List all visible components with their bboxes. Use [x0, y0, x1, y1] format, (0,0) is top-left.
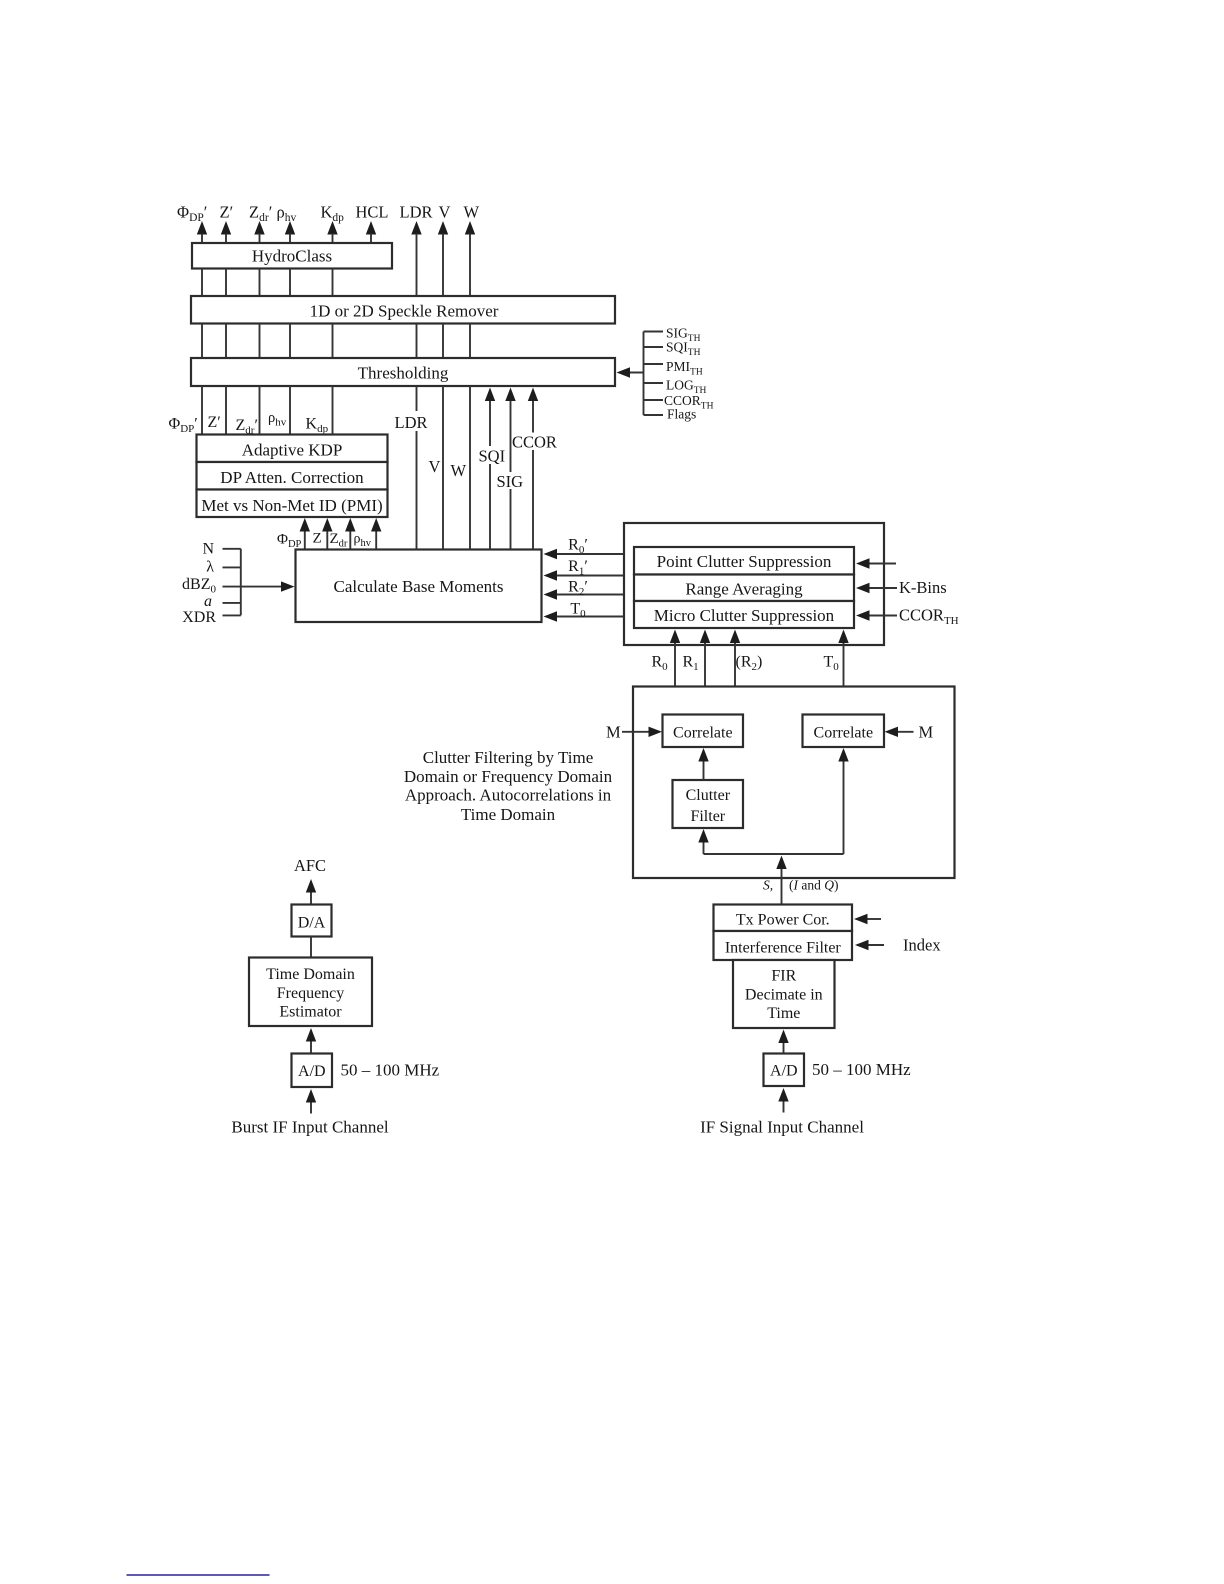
svg-text:D/A: D/A	[298, 915, 326, 932]
label PhiDP' mid	[168, 412, 201, 435]
svg-text:Micro Clutter Suppression: Micro Clutter Suppression	[654, 606, 835, 625]
svg-text:(I and Q): (I and Q)	[789, 878, 839, 893]
footnote rule	[127, 1574, 270, 1576]
box Adaptive KDP	[197, 435, 388, 463]
top output arrowheads	[197, 221, 475, 235]
svg-text:Correlate: Correlate	[814, 725, 874, 742]
arrow A/D to FIR	[778, 1030, 788, 1054]
svg-text:a: a	[204, 593, 212, 610]
svg-text:R0: R0	[652, 654, 669, 674]
box 1D or 2D Speckle Remover	[191, 296, 615, 324]
svg-text:M: M	[919, 723, 934, 742]
box clutter filtering group	[633, 687, 955, 879]
box FIR Decimate in Time	[733, 960, 835, 1028]
svg-text:ρhv: ρhv	[354, 532, 372, 550]
box D/A	[292, 905, 332, 937]
svg-text:Time Domain: Time Domain	[461, 805, 556, 824]
svg-text:50 – 100 MHz: 50 – 100 MHz	[812, 1060, 911, 1079]
svg-text:SIG: SIG	[497, 472, 524, 491]
arrow M into Correlate right	[885, 727, 914, 737]
svg-text:Clutter: Clutter	[686, 787, 731, 804]
label SQI mid	[478, 446, 506, 466]
arrow Index into Interference Filter	[855, 940, 884, 950]
box Thresholding	[191, 358, 615, 386]
svg-text:Z: Z	[313, 531, 322, 547]
svg-text:Interference Filter: Interference Filter	[725, 940, 842, 957]
svg-text:Zdr′: Zdr′	[249, 203, 272, 225]
wires Speckle to Thresholding	[202, 324, 470, 359]
box Correlate right	[803, 715, 885, 748]
label LDR mid	[394, 411, 429, 432]
box HydroClass	[192, 243, 392, 269]
arrow CCORth into Micro Clutter Suppression	[856, 610, 897, 620]
svg-text:DP Atten. Correction: DP Atten. Correction	[220, 468, 364, 487]
box A/D right	[764, 1054, 805, 1087]
svg-text:Kdp: Kdp	[321, 203, 345, 225]
svg-text:Clutter Filtering by Time: Clutter Filtering by Time	[423, 748, 594, 767]
box Point Clutter Suppression	[634, 547, 854, 575]
svg-text:Point Clutter Suppression: Point Clutter Suppression	[657, 552, 832, 571]
svg-text:A/D: A/D	[298, 1063, 326, 1080]
svg-text:Kdp: Kdp	[306, 416, 329, 436]
box Correlate left	[663, 715, 744, 748]
arrow IF input into A/D	[778, 1088, 788, 1113]
arrow into Point Clutter Suppression	[856, 558, 896, 568]
box clutter suppression outer	[624, 523, 884, 645]
arrow thresholds into Thresholding	[617, 367, 644, 377]
arrow A/D to Estimator	[306, 1028, 316, 1054]
arrow burst input into A/D	[306, 1089, 316, 1114]
svg-text:Decimate in: Decimate in	[745, 987, 823, 1004]
arrow D/A to AFC	[306, 879, 316, 905]
arrow K-Bins into Range Averaging	[856, 583, 897, 593]
svg-text:CCOR: CCOR	[512, 433, 557, 452]
svg-text:Z′: Z′	[220, 203, 234, 222]
svg-text:(R2): (R2)	[736, 654, 763, 674]
bracket thresholds	[644, 332, 664, 416]
svg-text:LDR: LDR	[400, 203, 433, 222]
arrow M into Correlate left	[622, 727, 662, 737]
svg-text:S,: S,	[763, 878, 773, 893]
box Met vs Non-Met ID (PMI)	[197, 490, 388, 518]
label CCOR mid	[512, 433, 559, 452]
svg-text:Index: Index	[903, 936, 941, 955]
svg-text:N: N	[202, 541, 214, 558]
svg-text:R1′: R1′	[568, 558, 588, 578]
svg-text:FIR: FIR	[771, 968, 796, 985]
svg-text:Approach. Autocorrelations in: Approach. Autocorrelations in	[405, 786, 612, 805]
svg-text:Filter: Filter	[690, 808, 725, 825]
svg-text:ρhv: ρhv	[277, 203, 297, 225]
wires HydroClass to Speckle	[202, 269, 333, 297]
svg-text:T0: T0	[824, 654, 840, 674]
box Time Domain Frequency Estimator	[249, 958, 372, 1027]
arrow collector to Correlate right	[838, 748, 848, 854]
svg-text:AFC: AFC	[294, 856, 326, 875]
wires LDR V W down to Calculate Base Moments	[417, 386, 471, 550]
arrows Correlate outputs up into suppression box	[670, 630, 849, 715]
label SIG mid	[496, 472, 524, 491]
svg-text:CCORTH: CCORTH	[899, 606, 959, 628]
svg-text:Calculate Base Moments: Calculate Base Moments	[334, 577, 504, 596]
svg-text:1D or 2D Speckle Remover: 1D or 2D Speckle Remover	[310, 302, 499, 321]
svg-text:LDR: LDR	[395, 413, 428, 432]
box A/D left	[292, 1054, 333, 1088]
arrow into Tx Power Cor.	[854, 914, 881, 924]
box Clutter Filter	[673, 780, 744, 828]
svg-text:Thresholding: Thresholding	[358, 364, 449, 383]
arrows Calc to Met vs Non-Met	[300, 518, 382, 550]
svg-text:W: W	[464, 203, 480, 222]
box Range Averaging	[634, 575, 854, 602]
arrow inputs into Calc	[241, 581, 295, 591]
svg-text:Zdr: Zdr	[330, 531, 348, 550]
svg-text:K-Bins: K-Bins	[899, 578, 947, 597]
box Tx Power Cor.	[714, 905, 853, 932]
svg-text:Domain or Frequency Domain: Domain or Frequency Domain	[404, 767, 613, 786]
wire collector horizontal	[704, 853, 844, 855]
svg-text:Time: Time	[767, 1005, 800, 1022]
box Micro Clutter Suppression	[634, 601, 854, 628]
box Calculate Base Moments	[296, 550, 542, 623]
arrow Clutter Filter to Correlate left	[698, 748, 708, 780]
top arrow stems	[202, 234, 470, 297]
svg-text:Flags: Flags	[667, 407, 696, 422]
svg-text:HydroClass: HydroClass	[252, 247, 332, 266]
svg-text:ΦDP′: ΦDP′	[177, 203, 207, 225]
svg-text:Burst IF Input Channel: Burst IF Input Channel	[231, 1118, 389, 1137]
svg-text:Frequency: Frequency	[277, 985, 345, 1002]
svg-text:R0′: R0′	[568, 537, 588, 557]
svg-text:Met vs Non-Met ID (PMI): Met vs Non-Met ID (PMI)	[201, 496, 382, 515]
svg-text:A/D: A/D	[770, 1063, 798, 1080]
wires Thresholding to Adaptive KDP stack	[202, 386, 333, 435]
svg-text:Adaptive KDP: Adaptive KDP	[242, 441, 343, 460]
svg-text:R2′: R2′	[568, 579, 588, 599]
text clutter filtering paragraph	[404, 748, 613, 824]
svg-text:50 – 100 MHz: 50 – 100 MHz	[341, 1061, 440, 1080]
svg-text:W: W	[451, 461, 467, 480]
wires R0 R1 R2 T0 into Calc	[544, 549, 625, 622]
wires SQI SIG CCOR up into Thresholding	[485, 388, 538, 550]
bracket left inputs	[223, 549, 241, 616]
wire D/A to Time Domain Frequency Estimator	[310, 937, 312, 958]
svg-text:T0: T0	[570, 601, 586, 621]
svg-text:Range Averaging: Range Averaging	[685, 580, 803, 599]
svg-text:Z′: Z′	[208, 414, 221, 431]
arrow collector into Clutter Filter	[698, 829, 708, 854]
svg-text:PMITH: PMITH	[666, 359, 703, 378]
svg-text:Time Domain: Time Domain	[266, 966, 355, 983]
arrow Tx Power up to collector	[776, 856, 786, 905]
svg-text:Estimator: Estimator	[279, 1004, 342, 1021]
svg-text:Tx Power Cor.: Tx Power Cor.	[736, 912, 830, 929]
svg-text:M: M	[606, 723, 621, 742]
box Interference Filter	[714, 931, 853, 960]
svg-text:λ: λ	[206, 559, 214, 576]
svg-text:HCL: HCL	[356, 203, 389, 222]
svg-text:XDR: XDR	[182, 609, 216, 626]
box DP Atten. Correction	[197, 462, 388, 490]
svg-text:Correlate: Correlate	[673, 725, 733, 742]
svg-text:V: V	[429, 457, 441, 476]
svg-text:R1: R1	[683, 654, 699, 674]
svg-text:ρhv: ρhv	[268, 410, 287, 429]
svg-text:SQI: SQI	[479, 447, 506, 466]
svg-text:V: V	[439, 203, 451, 222]
svg-text:ΦDP: ΦDP	[277, 532, 302, 551]
svg-text:IF Signal Input Channel: IF Signal Input Channel	[700, 1118, 864, 1137]
